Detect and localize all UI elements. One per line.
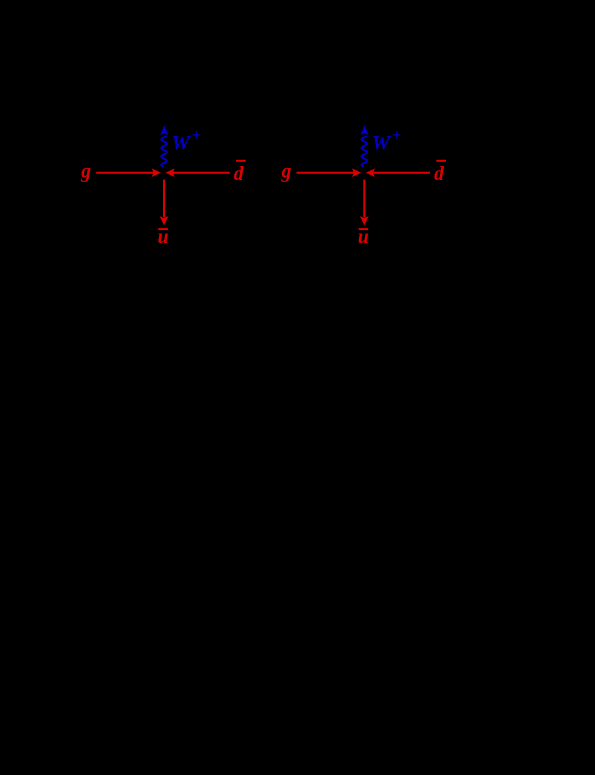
incoming antiquark line dbar (right diagram) <box>373 172 430 174</box>
svg-text:W: W <box>172 132 192 154</box>
incoming antiquark line dbar (left diagram) <box>173 172 230 174</box>
arrowhead on W+ line pointing up (right diagram) <box>361 125 369 135</box>
svg-text:+: + <box>192 127 201 144</box>
svg-text:u: u <box>358 227 369 248</box>
svg-text:W: W <box>372 132 392 154</box>
overline bar of ubar (left diagram) <box>158 228 168 230</box>
svg-text:+: + <box>392 127 401 144</box>
arrowhead on dbar line pointing left into vertex (right diagram) <box>366 168 375 177</box>
incoming quark line g (left diagram) <box>96 172 153 174</box>
arrowhead on g line pointing right into vertex (right diagram) <box>352 168 361 177</box>
svg-text:d: d <box>434 164 444 185</box>
arrowhead on ubar line pointing down (left diagram) <box>160 216 169 225</box>
arrowhead on W+ line pointing up (left diagram) <box>160 125 168 135</box>
W+ boson wavy line upward (right diagram) <box>362 136 367 167</box>
arrowhead on dbar line pointing left into vertex (left diagram) <box>166 168 175 177</box>
arrowhead on ubar line pointing down (right diagram) <box>360 216 369 225</box>
svg-text:d: d <box>234 164 244 185</box>
overline bar of dbar (left diagram) <box>236 160 246 162</box>
svg-text:g: g <box>80 162 91 183</box>
outgoing quark line ubar downward (right diagram) <box>363 180 365 217</box>
W+ boson wavy line upward (left diagram) <box>161 136 166 167</box>
svg-text:u: u <box>158 227 169 248</box>
svg-text:g: g <box>281 162 292 183</box>
overline bar of dbar (right diagram) <box>436 160 446 162</box>
overline bar of ubar (right diagram) <box>359 228 369 230</box>
outgoing quark line ubar downward (left diagram) <box>163 180 165 217</box>
incoming quark line g (right diagram) <box>297 172 354 174</box>
arrowhead on g line pointing right into vertex (left diagram) <box>152 168 161 177</box>
